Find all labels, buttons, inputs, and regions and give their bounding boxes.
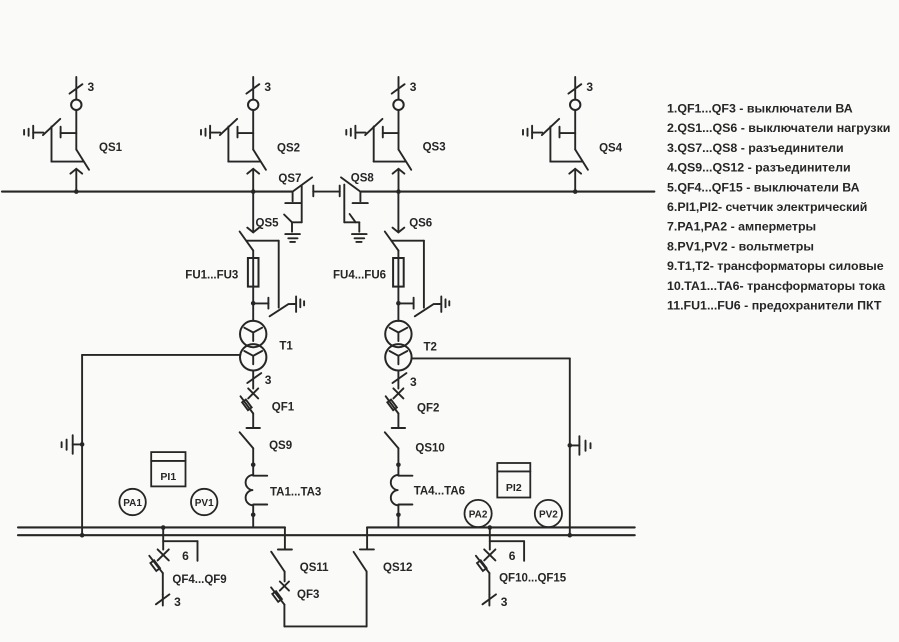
legend bbox=[667, 101, 890, 312]
wire QF2 3-phase tap bbox=[393, 371, 418, 390]
disconnector QS9 bbox=[240, 432, 293, 475]
power transformer T1 bbox=[240, 321, 293, 371]
load-break switch QS5 bbox=[240, 193, 305, 316]
svg-text:QF3: QF3 bbox=[297, 589, 319, 601]
ground right riser bbox=[568, 436, 591, 455]
svg-text:FU4...FU6: FU4...FU6 bbox=[333, 269, 386, 281]
svg-text:QS12: QS12 bbox=[383, 562, 412, 574]
svg-text:6.PI1,PI2- счетчик электрическ: 6.PI1,PI2- счетчик электрический bbox=[667, 200, 867, 214]
svg-text:FU1...FU3: FU1...FU3 bbox=[185, 269, 238, 281]
svg-text:3.QS7...QS8 - разъединители: 3.QS7...QS8 - разъединители bbox=[667, 141, 844, 155]
svg-text:TA1...TA3: TA1...TA3 bbox=[270, 486, 321, 498]
voltmeter PV2 bbox=[535, 500, 562, 527]
svg-text:3: 3 bbox=[174, 595, 181, 609]
svg-text:T1: T1 bbox=[279, 341, 293, 353]
svg-text:5.QF4...QF15 - выключатели ВА: 5.QF4...QF15 - выключатели ВА bbox=[667, 180, 860, 194]
ammeter PA1 bbox=[119, 489, 145, 515]
svg-text:10.TA1...TA6- трансформаторы т: 10.TA1...TA6- трансформаторы тока bbox=[667, 279, 885, 293]
svg-text:PA1: PA1 bbox=[123, 498, 142, 509]
wire left voltage riser bbox=[80, 355, 241, 538]
svg-text:3: 3 bbox=[265, 373, 272, 387]
disconnector QS8 bbox=[341, 172, 374, 242]
energy meter PI1 bbox=[151, 452, 185, 486]
svg-text:QS7: QS7 bbox=[278, 173, 301, 185]
svg-text:3: 3 bbox=[264, 80, 271, 94]
disconnector QS11 bbox=[271, 527, 329, 581]
svg-text:QS6: QS6 bbox=[409, 218, 432, 230]
svg-text:T2: T2 bbox=[424, 342, 437, 354]
circuit breaker QF2 bbox=[386, 388, 440, 428]
ground left riser bbox=[62, 435, 85, 454]
LV busbar lower bbox=[18, 534, 635, 536]
svg-text:3: 3 bbox=[586, 80, 593, 94]
fuse FU1...FU3 bbox=[185, 251, 258, 321]
load-break switch QS2 bbox=[201, 77, 300, 194]
svg-text:QF2: QF2 bbox=[417, 403, 439, 415]
outgoing feeder breaker QF10...QF15 bbox=[476, 525, 567, 609]
svg-text:QS4: QS4 bbox=[599, 142, 623, 154]
svg-text:QF1: QF1 bbox=[272, 401, 295, 413]
svg-text:QS1: QS1 bbox=[99, 142, 123, 154]
voltmeter PV1 bbox=[191, 489, 217, 515]
wire section loop bbox=[284, 572, 366, 627]
svg-text:6: 6 bbox=[509, 549, 516, 563]
svg-text:QS5: QS5 bbox=[256, 218, 280, 230]
LV busbar upper-right bbox=[367, 526, 635, 528]
svg-text:PI1: PI1 bbox=[160, 471, 176, 483]
ammeter PA2 bbox=[465, 500, 492, 527]
svg-text:3: 3 bbox=[410, 80, 417, 94]
svg-text:PI2: PI2 bbox=[506, 482, 522, 494]
wire QF1 3-phase tap bbox=[247, 371, 271, 389]
svg-text:PV1: PV1 bbox=[195, 498, 214, 509]
LV busbar upper-left bbox=[18, 526, 285, 528]
energy meter PI2 bbox=[497, 463, 530, 498]
fuse FU4...FU6 bbox=[333, 251, 404, 321]
disconnector QS12 bbox=[354, 527, 413, 573]
disconnector QS10 bbox=[385, 432, 445, 475]
svg-text:4.QS9...QS12 - разъединители: 4.QS9...QS12 - разъединители bbox=[667, 161, 851, 175]
svg-text:9.T1,T2- трансформаторы силовы: 9.T1,T2- трансформаторы силовые bbox=[667, 259, 884, 273]
svg-text:8.PV1,PV2 - вольтметры: 8.PV1,PV2 - вольтметры bbox=[667, 239, 814, 253]
svg-text:PA2: PA2 bbox=[469, 509, 488, 520]
HV busbar section 1 bbox=[2, 191, 293, 193]
svg-text:7.PA1,PA2 - амперметры: 7.PA1,PA2 - амперметры bbox=[667, 220, 816, 234]
disconnector QS7 bbox=[278, 173, 312, 242]
circuit breaker QF3 bbox=[271, 582, 319, 627]
svg-text:3: 3 bbox=[88, 80, 95, 94]
outgoing feeder breaker QF4...QF9 bbox=[149, 525, 226, 609]
load-break switch QS1 bbox=[24, 77, 123, 194]
svg-text:6: 6 bbox=[182, 549, 189, 563]
svg-text:3: 3 bbox=[501, 595, 508, 609]
load-break switch QS4 bbox=[523, 77, 623, 194]
svg-text:QS9: QS9 bbox=[269, 440, 292, 452]
load-break switch QS6 bbox=[385, 193, 450, 316]
svg-text:3: 3 bbox=[410, 375, 417, 389]
bus tie link bbox=[313, 186, 339, 197]
svg-text:PV2: PV2 bbox=[539, 509, 558, 520]
svg-text:QS11: QS11 bbox=[300, 562, 329, 574]
svg-text:1.QF1...QF3 - выключатели ВА: 1.QF1...QF3 - выключатели ВА bbox=[667, 101, 853, 115]
svg-text:QS8: QS8 bbox=[351, 172, 375, 184]
svg-text:QS10: QS10 bbox=[415, 443, 444, 455]
svg-text:QF4...QF9: QF4...QF9 bbox=[172, 574, 226, 586]
HV busbar section 2 bbox=[360, 191, 654, 193]
circuit breaker QF1 bbox=[241, 388, 295, 428]
load-break switch QS3 bbox=[346, 77, 445, 194]
svg-text:11.FU1...FU6 - предохранители: 11.FU1...FU6 - предохранители ПКТ bbox=[667, 299, 882, 313]
svg-text:QS2: QS2 bbox=[277, 142, 300, 154]
svg-text:TA4...TA6: TA4...TA6 bbox=[414, 486, 465, 498]
current transformer TA4...TA6 bbox=[391, 463, 465, 528]
current transformer TA1...TA3 bbox=[246, 463, 322, 528]
svg-text:2.QS1...QS6 - выключатели нагр: 2.QS1...QS6 - выключатели нагрузки bbox=[667, 121, 890, 135]
svg-text:QS3: QS3 bbox=[423, 141, 446, 153]
power transformer T2 bbox=[385, 321, 437, 371]
svg-text:QF10...QF15: QF10...QF15 bbox=[499, 572, 567, 584]
wire right voltage riser bbox=[412, 358, 572, 537]
